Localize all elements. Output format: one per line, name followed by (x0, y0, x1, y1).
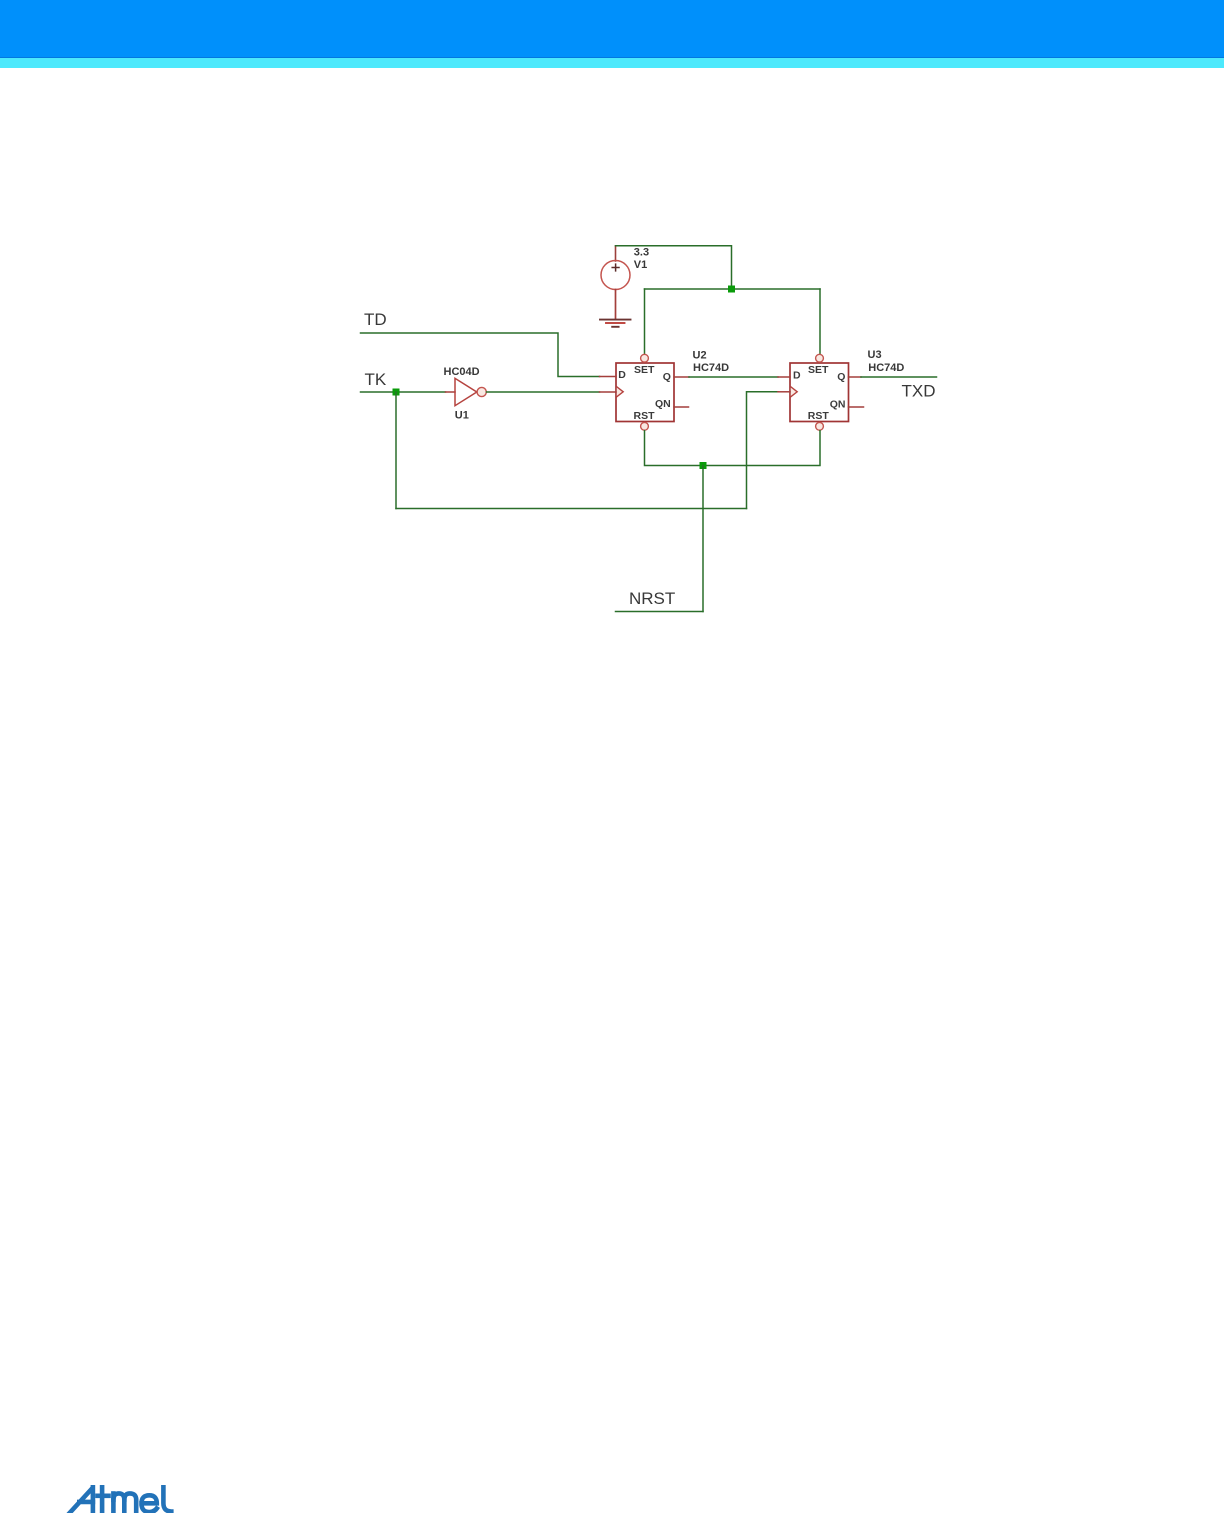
svg-text:U3: U3 (868, 349, 882, 361)
wire NRST vertical (702, 466, 704, 612)
wire NRST horizontal (616, 611, 704, 613)
wire U1 output to U2 clock (487, 391, 600, 393)
wire supply rail (645, 288, 821, 290)
svg-text:HC74D: HC74D (868, 362, 904, 374)
header blue bar (0, 0, 1224, 57)
svg-text:TD: TD (364, 310, 387, 329)
svg-text:HC04D: HC04D (444, 366, 480, 378)
svg-text:D: D (793, 370, 801, 382)
svg-text:QN: QN (830, 399, 846, 411)
svg-text:TK: TK (365, 370, 387, 389)
svg-text:QN: QN (655, 398, 671, 410)
svg-text:HC74D: HC74D (693, 362, 729, 374)
wire rail to U2 SET (644, 289, 646, 354)
flip-flop U2 (600, 354, 690, 430)
wire U2 Q to U3 D (689, 376, 778, 378)
wire TK feedback up to U3 clock (747, 392, 779, 509)
svg-text:V1: V1 (634, 259, 647, 271)
wire TD to U2 D (361, 333, 600, 377)
ground (600, 320, 631, 327)
wire V1 plus to supply rail (616, 246, 732, 286)
wire TK feedback bottom (396, 508, 747, 510)
svg-text:D: D (618, 369, 626, 381)
voltage source V1 (601, 246, 630, 319)
wire rail to U3 SET (819, 289, 821, 354)
flip-flop U3 (778, 354, 864, 430)
svg-text:3.3: 3.3 (634, 247, 649, 259)
wire U3 Q to TXD (861, 376, 937, 378)
svg-text:SET: SET (634, 364, 655, 376)
junction NRST (700, 462, 707, 469)
svg-text:Q: Q (837, 371, 845, 383)
junction TK (393, 389, 400, 396)
Atmel logo (70, 1487, 172, 1513)
svg-text:U2: U2 (693, 350, 707, 362)
wire TK feedback down (395, 392, 397, 509)
svg-text:NRST: NRST (629, 589, 675, 608)
svg-text:RST: RST (634, 410, 656, 422)
header cyan strip (0, 57, 1224, 68)
wire TK to U1 input (361, 391, 446, 393)
svg-text:TXD: TXD (902, 382, 936, 401)
svg-text:U1: U1 (455, 410, 469, 422)
inverter U1 (446, 378, 487, 405)
wire U2 RST to U3 RST (645, 431, 821, 466)
junction supply rail (728, 286, 735, 293)
svg-text:SET: SET (808, 364, 829, 376)
svg-text:Q: Q (663, 371, 671, 383)
svg-text:RST: RST (808, 410, 830, 422)
